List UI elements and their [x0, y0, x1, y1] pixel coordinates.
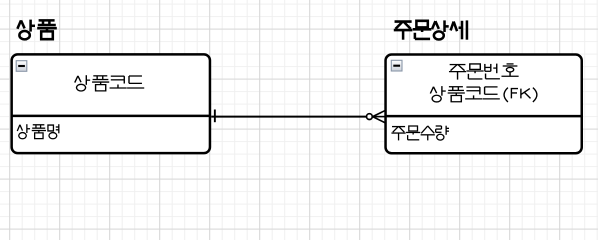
- collapse icon left entity: [16, 61, 27, 72]
- entity OrderDetail divider: [386, 115, 582, 118]
- field ProductCode: [75, 75, 144, 91]
- field OrderQty: [391, 126, 449, 141]
- cardinality zero circle (right end): [367, 114, 373, 120]
- title Product: [17, 20, 56, 40]
- field ProductName: [17, 124, 59, 139]
- wire relation line: [211, 116, 366, 118]
- entity Product box: [12, 54, 210, 153]
- entity Product divider: [12, 115, 210, 118]
- collapse icon right entity: [391, 60, 402, 71]
- title OrderDetail: [394, 20, 467, 39]
- field OrderNo: [449, 64, 519, 80]
- field (FK) latin: [504, 88, 537, 102]
- cardinality one tick (left end): [214, 110, 216, 123]
- field ProductCodeFK hangul: [430, 86, 499, 102]
- crow foot many (right end): [372, 111, 385, 123]
- entity OrderDetail box: [386, 55, 582, 154]
